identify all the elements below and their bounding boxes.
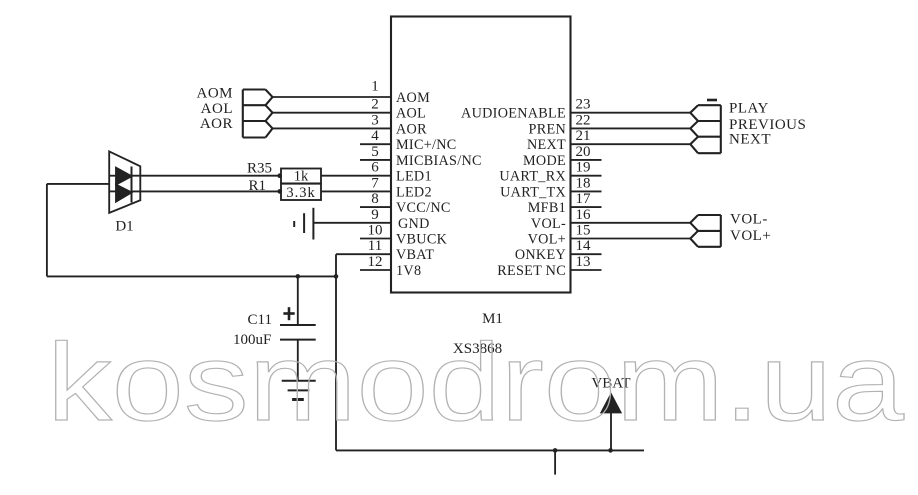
D1 LED1 triangle — [116, 168, 132, 185]
wire pin 23 — [571, 112, 691, 114]
ground symbol at pin 9 — [294, 208, 313, 240]
wire pin 7 (R1 to IC) — [321, 190, 391, 192]
wire pin 8 stub — [360, 206, 391, 208]
junction dot VBAT rail — [334, 274, 339, 279]
junction dot R1 input — [277, 189, 282, 194]
D1 cathode bar — [131, 167, 133, 203]
resistor R35 box — [281, 169, 321, 184]
wire pin 22 — [571, 127, 691, 129]
C11 plus sign — [283, 307, 294, 320]
vertical VBAT rail pin11 down to bottom — [335, 254, 337, 450]
wire pin 17 stub — [571, 206, 602, 208]
wire pin 4 stub — [360, 143, 391, 145]
VBAT arrow head — [601, 394, 620, 412]
wire pin 9 (GND) — [313, 222, 391, 224]
pin numbers left — [368, 79, 383, 271]
wire pin 13 stub — [571, 269, 602, 271]
C11 bottom plate — [280, 339, 316, 341]
capacitor C11 top lead — [297, 276, 299, 325]
wire pin 16 — [571, 222, 691, 224]
left vertical wire from D1 anode down — [46, 184, 48, 277]
D1 LED2 triangle — [116, 185, 132, 202]
resistor R1 box — [281, 184, 321, 200]
wire pin 14 stub — [571, 253, 602, 255]
wire pin 20 stub — [571, 159, 602, 161]
D1 anode wire left — [47, 183, 109, 185]
wire pin 15 — [571, 238, 691, 240]
junction dot VBAT arrow — [608, 448, 613, 453]
IC M1 body — [391, 17, 571, 293]
ground below C11 — [282, 381, 316, 400]
IC right pin labels — [461, 106, 566, 279]
bottom stub wire down — [554, 450, 556, 474]
svg-text:kosmodrom.ua: kosmodrom.ua — [47, 321, 905, 444]
junction dot C11 tap — [296, 274, 301, 279]
VBAT arrow lead — [610, 412, 612, 450]
dual LED D1 outline — [109, 151, 140, 213]
minus mark above PLAY connector — [707, 99, 717, 102]
connector block PLAY/PREVIOUS/NEXT — [690, 105, 721, 153]
D1 internal anode stubs — [109, 175, 116, 177]
wire pin 11 (VBAT) — [336, 253, 391, 255]
connector block AOM/AOL/AOR — [243, 90, 273, 138]
wire pin 1 — [273, 96, 392, 98]
wire pin 10 stub — [360, 238, 391, 240]
wire pin 21 — [571, 143, 691, 145]
wire pin 5 stub — [360, 159, 391, 161]
wire pin 3 — [273, 127, 392, 129]
wire pin 6 (R35 to IC) — [321, 175, 391, 177]
junction dot R35 input — [277, 173, 282, 178]
junction dot bottom stub — [553, 448, 558, 453]
C11 top plate — [280, 324, 316, 326]
wire pin 12 stub — [360, 269, 391, 271]
bottom rail wire — [336, 449, 644, 451]
wire pin 2 — [273, 112, 392, 114]
horizontal VBAT wire to rail — [47, 275, 336, 277]
wire pin 19 stub — [571, 175, 602, 177]
connector block VOL-/VOL+ — [690, 215, 721, 247]
IC left pin labels — [396, 90, 482, 279]
wire D1 LED1 to R35 — [132, 175, 282, 177]
pin numbers right — [576, 97, 592, 270]
wire D1 LED2 to R1 — [132, 190, 282, 192]
wire pin 18 stub — [571, 190, 602, 192]
C11 bottom lead — [297, 340, 299, 381]
